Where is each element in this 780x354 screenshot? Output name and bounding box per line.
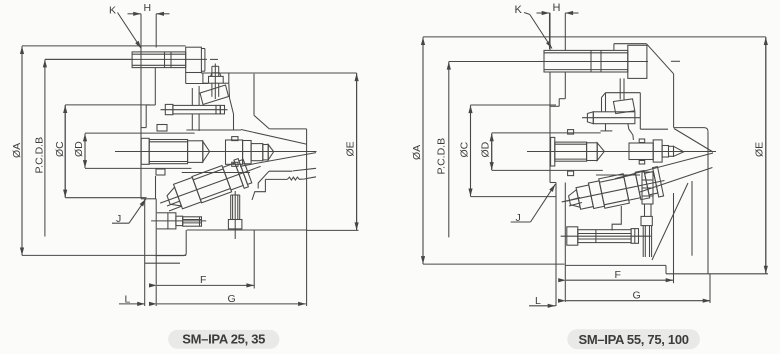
- dimension L: [119, 294, 145, 306]
- support wedge marks right: [567, 198, 582, 207]
- piston right: [551, 137, 605, 166]
- label K right: [515, 4, 523, 16]
- jaw wedge diagonals right: [615, 129, 713, 193]
- clamp bolt bottom right: [561, 227, 651, 245]
- jaw wedge diagonals left: [240, 130, 316, 167]
- dimension ØA: [11, 46, 186, 256]
- svg-text:G: G: [633, 290, 641, 302]
- body outline right: [550, 13, 710, 306]
- svg-text:H: H: [144, 2, 152, 14]
- svg-text:ØD: ØD: [73, 141, 85, 157]
- mounting bolt left (top): [132, 47, 205, 72]
- svg-text:ØE: ØE: [754, 142, 766, 157]
- svg-text:H: H: [553, 2, 561, 14]
- support stud bottom left: [228, 191, 242, 239]
- label H: [144, 2, 152, 14]
- dimension ØE right: [708, 37, 768, 274]
- lever block right: [596, 78, 668, 175]
- svg-text:L: L: [535, 295, 541, 307]
- dimension ØA right: [411, 37, 766, 264]
- clamp nut and stud (top middle): [203, 64, 229, 100]
- bolt centerline right: [449, 60, 680, 62]
- label J right and leader: [511, 184, 556, 224]
- draw shaft right drawing: [629, 140, 684, 162]
- svg-text:F: F: [615, 269, 621, 281]
- label H right: [553, 2, 561, 14]
- dimension H: [128, 14, 170, 48]
- dimension G right: [566, 290, 711, 302]
- svg-text:SM–IPA 25, 35: SM–IPA 25, 35: [182, 332, 265, 347]
- dimension G: [157, 293, 306, 305]
- svg-text:P.C.D.B: P.C.D.B: [436, 138, 448, 175]
- angled cylinder left: [155, 152, 266, 217]
- svg-text:ØC: ØC: [459, 141, 471, 157]
- label K: [109, 5, 116, 17]
- dimension ØC right: [459, 105, 557, 197]
- draw shaft right side left drawing: [226, 140, 274, 164]
- angled cylinder right: [559, 166, 668, 217]
- dimension P.C.D.B: [34, 59, 133, 236]
- dimension H right: [537, 13, 579, 50]
- svg-text:P.C.D.B: P.C.D.B: [34, 137, 46, 174]
- svg-text:F: F: [200, 274, 206, 286]
- port squares right: [568, 130, 645, 176]
- support stud bottom right: [612, 172, 653, 257]
- jaw step profile left: [252, 168, 316, 200]
- svg-text:SM–IPA 55, 75, 100: SM–IPA 55, 75, 100: [578, 332, 688, 347]
- body outline left: [141, 46, 357, 306]
- label J and leader: [112, 199, 146, 225]
- leader K right: [524, 13, 552, 49]
- caption pill left: [168, 330, 279, 349]
- dimension ØD: [73, 133, 195, 168]
- dimension ØE: [307, 73, 359, 230]
- svg-text:ØA: ØA: [411, 145, 423, 160]
- svg-text:ØC: ØC: [54, 141, 66, 157]
- mounting bolt right (top): [544, 45, 647, 78]
- dimension ØD right: [480, 133, 603, 171]
- main centerline right: [527, 151, 716, 153]
- piston left: [141, 138, 209, 164]
- svg-text:ØD: ØD: [480, 141, 492, 157]
- dimension ØC: [54, 105, 150, 198]
- support wedge marks left: [167, 201, 182, 211]
- port squares left: [156, 125, 238, 176]
- guide pin right: [582, 112, 640, 124]
- lever block left: [182, 73, 250, 173]
- svg-text:G: G: [228, 293, 236, 305]
- dimension F: [157, 230, 254, 289]
- svg-text:K: K: [515, 4, 523, 16]
- svg-text:ØE: ØE: [345, 141, 357, 156]
- dimension P.C.D.B right: [436, 62, 545, 238]
- dimension L right: [529, 295, 556, 307]
- main centerline left: [115, 151, 317, 153]
- dimension F right: [566, 193, 674, 283]
- caption pill right: [567, 329, 700, 349]
- clamp bolt bottom left: [151, 213, 206, 229]
- svg-text:ØA: ØA: [11, 143, 23, 158]
- bolt centerline left: [45, 58, 218, 60]
- svg-text:K: K: [109, 5, 116, 17]
- guide pin left: [161, 104, 228, 114]
- leader K: [118, 13, 142, 49]
